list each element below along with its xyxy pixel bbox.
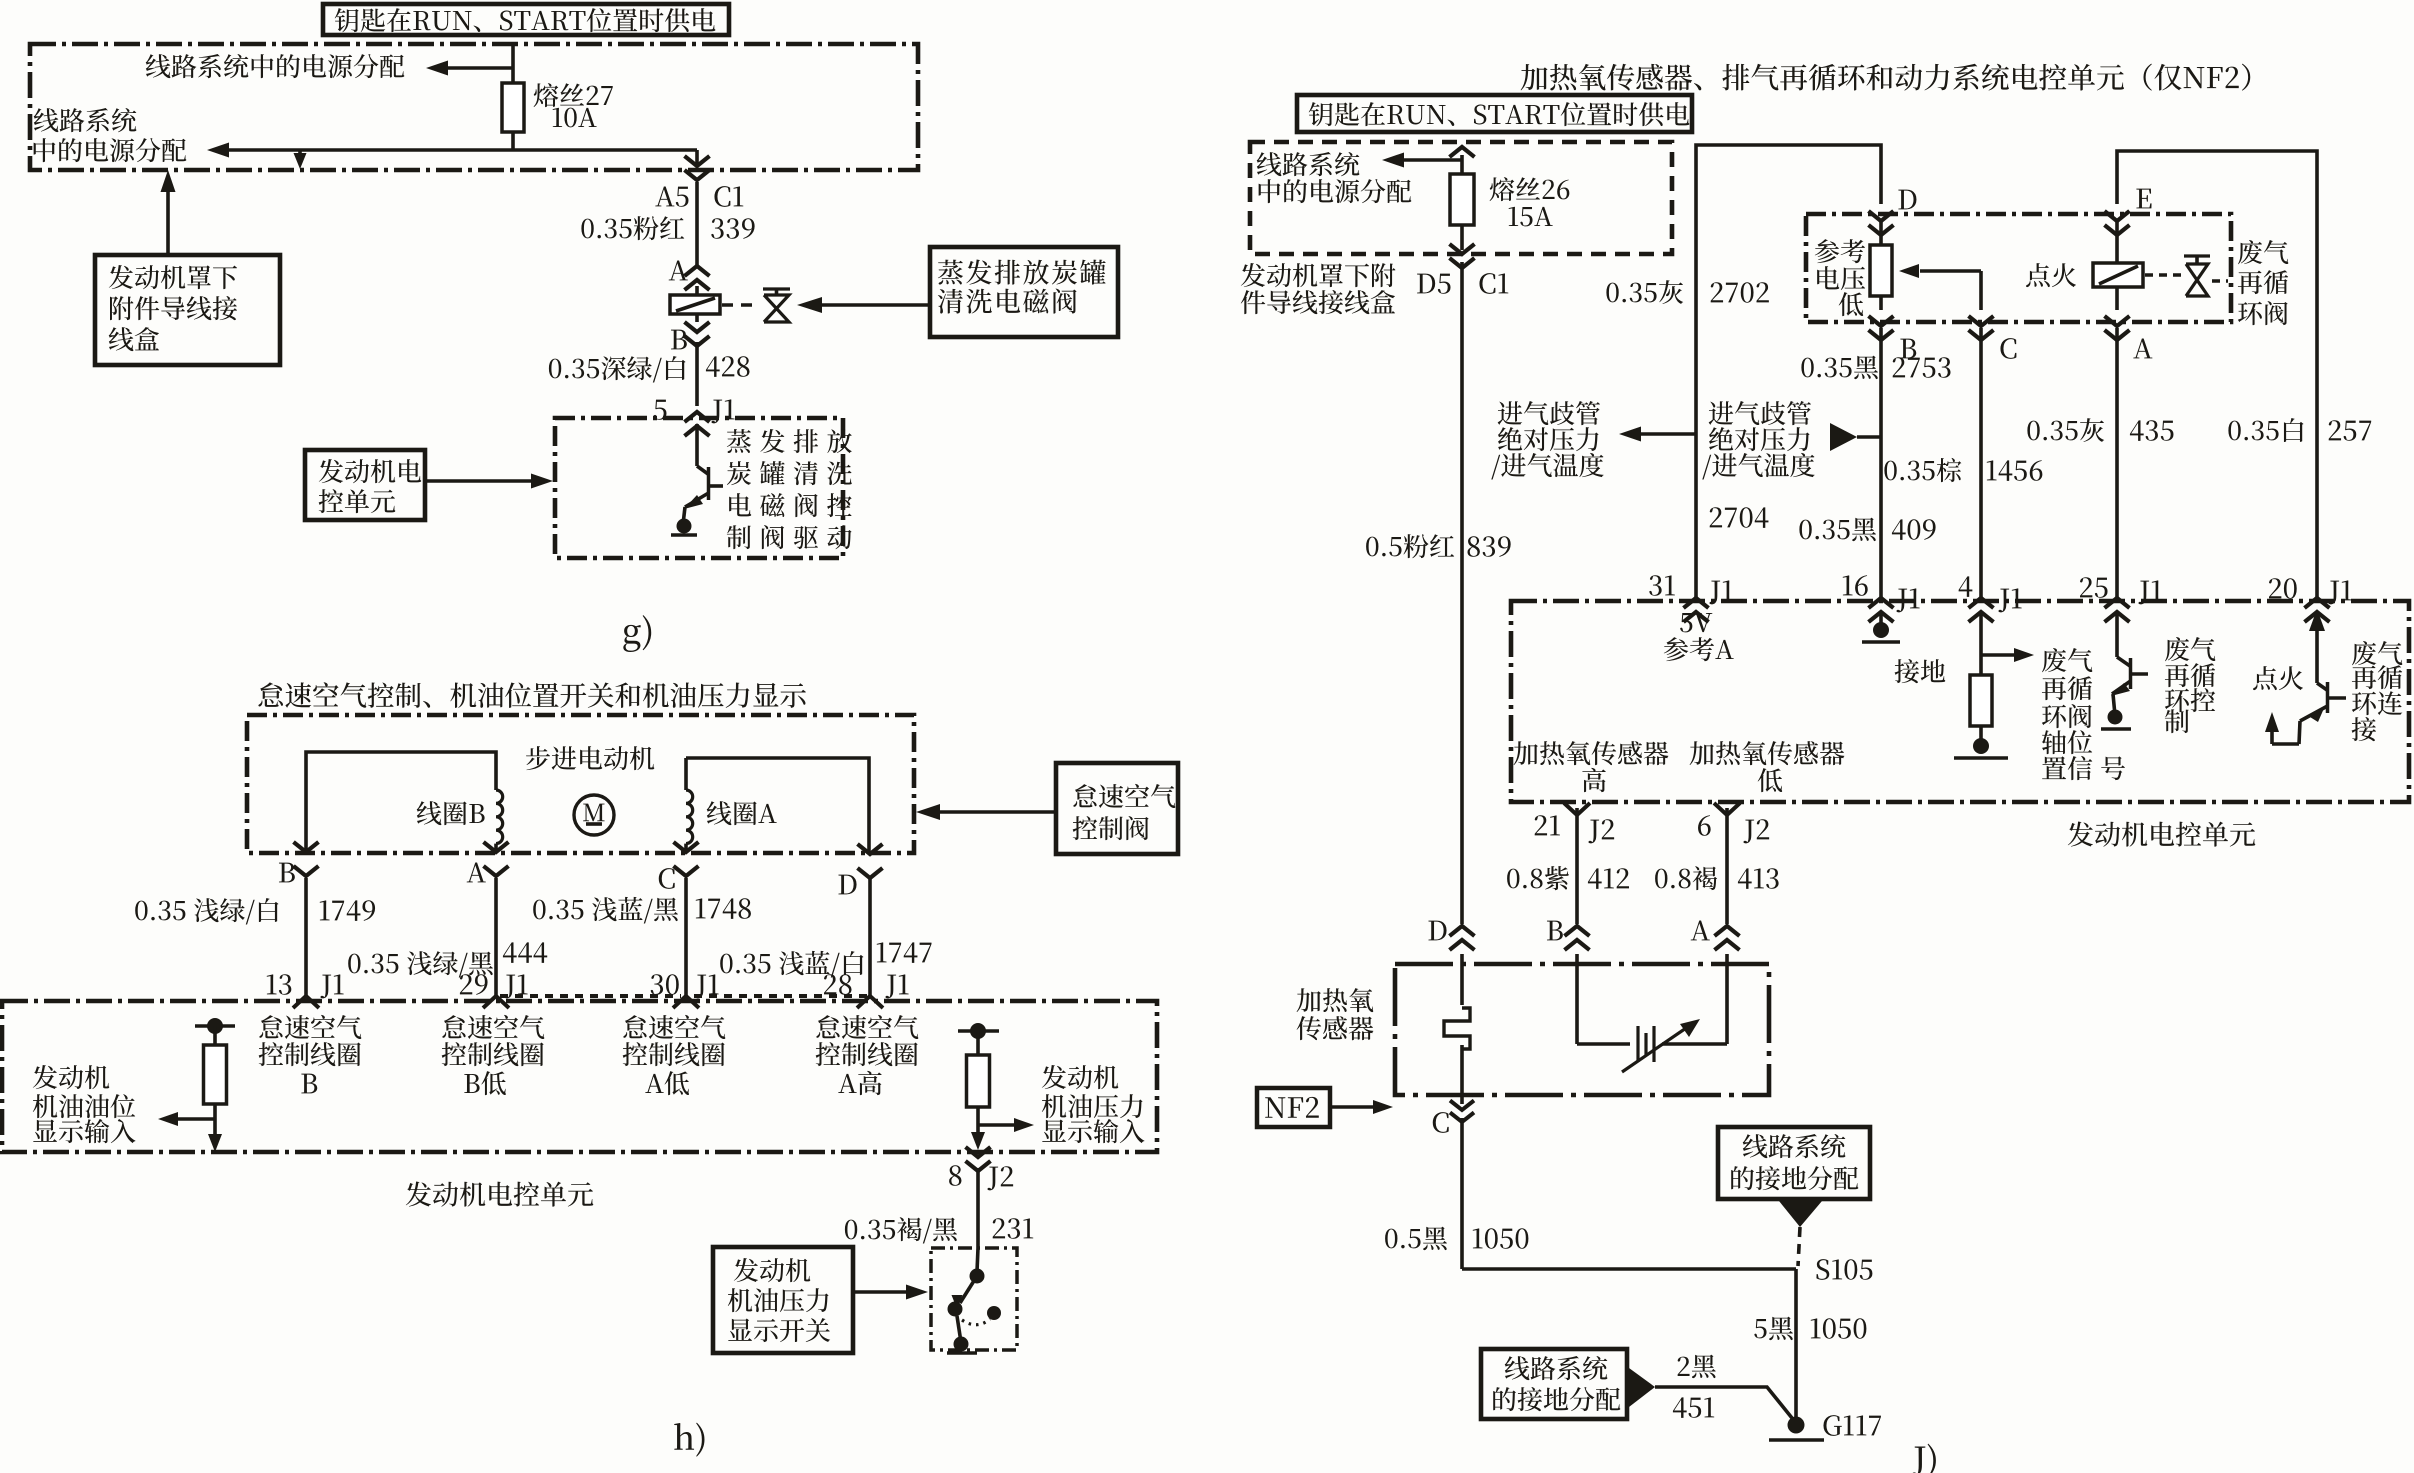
arrow down at box bottom + connector D5/C1 (1450, 244, 1475, 254)
section J title (1521, 64, 2251, 91)
pin label C1 (714, 186, 743, 207)
5V ref loop wire 2702/2704 (1696, 145, 1881, 598)
wire label 0.35 浅绿/白 1749 (135, 898, 278, 924)
pin 8 J2 (966, 1147, 991, 1157)
pin label D5 (1417, 274, 1450, 294)
node: power distribution dash-dot box (g) (30, 44, 918, 170)
box 发动机电控单元 (g) (305, 450, 425, 520)
ECU dash-dot box (J) (1511, 601, 2409, 802)
wire label 0.5粉红 839 (1366, 534, 1454, 558)
junction box arrow up from 发动机罩下附件导线接线盒 (166, 190, 170, 255)
label 废气再循环连接 (2352, 641, 2402, 665)
net label 线路系统中的电源分配 (J) (1257, 152, 1360, 176)
wire number 339 (711, 218, 754, 239)
caption g) (623, 615, 651, 652)
label 怠速空气控制线圈B (259, 1015, 361, 1039)
connector B (EGR) (1869, 316, 1894, 326)
wire label 0.35灰 2702 (1606, 280, 1683, 304)
wire label 0.35黑 2753 (1801, 356, 1878, 380)
connector E (2105, 211, 2130, 221)
ECU dash-dot box (g) (555, 418, 843, 558)
connector A (O2 sensor) (1715, 926, 1740, 936)
fuse F27 wire (511, 44, 515, 150)
dashed link to EGR pintle valve (2145, 273, 2181, 277)
section h title 怠速空气控制、机油位置开关和机油压力显示 (258, 682, 805, 708)
wire label 0.35灰 435 (2027, 418, 2104, 442)
label 蒸发排放炭罐清洗电磁阀控制阀驱动 (727, 429, 852, 453)
ground wire to S105 (1462, 1267, 1796, 1271)
wire label 0.8褐 413 (1655, 866, 1717, 890)
label 废气再循环控制 (2165, 637, 2215, 661)
arrow ECU box to dash-dot (425, 479, 545, 483)
tap arrow down to junction box (298, 150, 302, 160)
fuse 27 10A (502, 83, 524, 132)
dashed connector-bus line (500, 994, 681, 998)
label 加热氧传感器 (sensor) (1297, 988, 1374, 1012)
wire label 0.35棕 1456 (1884, 458, 1961, 482)
label 进气歧管绝对压力/进气温度 (left) (1498, 401, 1600, 425)
node S105 (1816, 1259, 1872, 1280)
pin 4 J1 + EGR position signal (1969, 598, 1994, 608)
oil pressure switch dash-dot box (931, 1248, 1017, 1350)
coil B loop wire (306, 752, 496, 852)
ECU caption 发动机电控单元 (h) (406, 1182, 593, 1207)
caption h) (674, 1423, 704, 1457)
section g: power feed label box (323, 4, 729, 35)
oil level branch arrow (175, 1117, 215, 1121)
power feed label box (J) (1297, 95, 1692, 132)
stepper motor symbol M (574, 795, 614, 835)
oil pressure branch arrow (978, 1123, 1014, 1127)
wire label 0.35 浅蓝/白 1747 (720, 951, 863, 978)
label 步进电动机 (526, 746, 654, 770)
driver transistor (purge solenoid control) (695, 424, 699, 466)
oil pressure sense resistor (958, 1029, 999, 1033)
net label 线路系统中的电源分配 (left) (34, 108, 137, 132)
wire E + 257 top link (2117, 151, 2317, 598)
net label 线路系统中的电源分配 (top) (146, 54, 405, 78)
connector D (h) (858, 844, 883, 854)
pin 31 J1 (1684, 598, 1709, 608)
label 点火 (EGR) (2026, 263, 2076, 287)
label 怠速空气控制线圈B低 (442, 1015, 544, 1039)
pin 20 J1 + EGR connect transistor (2305, 598, 2330, 608)
dashed link to valve (722, 303, 757, 307)
box 蒸发排放炭罐清洗电磁阀 (930, 247, 1118, 337)
wire label 0.35 浅绿/黑 444 (348, 951, 493, 977)
O2 heater element (1460, 954, 1464, 1005)
O2 sensor dash-dot box (1395, 964, 1769, 1095)
coil A inductor (684, 758, 688, 790)
pin 6 J2 (1714, 803, 1740, 815)
wire label 0.35 浅蓝/黑 1748 (533, 897, 678, 924)
purge solenoid coil (relay box with slash) (670, 295, 720, 314)
triangle + wire 451 to G117 (1629, 1368, 1655, 1407)
connector B (h) (294, 842, 319, 852)
label 线圈B (417, 801, 485, 825)
wire label 2黑 451 (1678, 1355, 1716, 1379)
pin 29 J1 (460, 974, 488, 995)
ground G117 (1788, 1417, 1805, 1434)
coil B inductor (496, 790, 503, 844)
connector C (O2 sensor) (1450, 1101, 1474, 1111)
arrow into resistor (1920, 269, 1981, 273)
arrow to power distribution (447, 66, 513, 70)
connector at box top (1450, 147, 1475, 157)
pin label C1 (1479, 273, 1508, 294)
wire label 0.35黑 409 (1799, 518, 1876, 542)
box NF2 (1257, 1088, 1330, 1127)
box 发动机罩下附件导线接线盒 (95, 255, 280, 365)
pin 21 J2 (1564, 803, 1590, 815)
connector B (671, 330, 687, 350)
label 废气再循环阀轴位置信号 (2042, 648, 2092, 672)
wire label 0.5黑 1050 (1385, 1227, 1447, 1251)
O2 sense element (variable emf) (1575, 954, 1579, 1044)
pin 5 / J1 (654, 400, 667, 420)
EGR pintle valve symbol (2184, 254, 2210, 257)
wire: bus to A5 (228, 148, 697, 152)
ECU dash-dot box (h) (2, 1001, 1157, 1152)
label 点火 (pin20) (2253, 666, 2303, 690)
pin 16 J1 + ground (1869, 598, 1894, 608)
label 线圈A (707, 801, 777, 825)
fuse 26 15A (1450, 174, 1474, 225)
MAP/IAT branch arrow left (1640, 432, 1696, 436)
wire label 0.35白 257 (2228, 418, 2303, 442)
box 发动机机油压力显示开关 (713, 1247, 853, 1353)
ECU caption 发动机电控单元 (J) (2068, 822, 2255, 847)
label 怠速空气控制线圈A高 (816, 1015, 918, 1039)
pin 25 J1 + EGR control transistor (2105, 598, 2130, 608)
label 加热氧传感器 低 (1690, 741, 1845, 765)
connector D (EGR) (1869, 211, 1894, 221)
oil level sense resistor (195, 1024, 235, 1028)
pin 28 J1 (824, 974, 852, 995)
EGR valve dash-dot box (1806, 214, 2231, 322)
box 线路系统的接地分配 (upper) (1718, 1127, 1870, 1199)
arrow to switch (853, 1290, 920, 1294)
IAC valve dash-dot box (h) (247, 715, 914, 853)
pin label A5 (655, 187, 688, 207)
connector A5/C1 at box border (695, 150, 699, 166)
label 进气歧管绝对压力/进气温度 (right) (1709, 401, 1811, 425)
wire label 0.8紫 412 (1507, 866, 1569, 890)
EGR solenoid coil symbol (2093, 263, 2143, 287)
wire label 5黑 1050 (1754, 1317, 1793, 1341)
coil A loop wire (686, 758, 869, 853)
wire label 0.35深绿/白 (549, 356, 686, 382)
box 线路系统的接地分配 (lower) (1481, 1349, 1627, 1419)
arrow NF2 to sensor (1330, 1105, 1385, 1109)
label 废气再循环阀 (2238, 240, 2288, 264)
label 5V 参考A (1680, 613, 1712, 632)
arrow to power distribution (J) (1403, 158, 1462, 162)
connector A (h) (484, 842, 509, 852)
EGR position sense resistor (1879, 221, 1883, 245)
arrow from 蒸发排放炭罐清洗电磁阀 box (820, 303, 930, 307)
connector A (EGR) (2105, 316, 2130, 326)
caption J) (1912, 1444, 1936, 1473)
oil pressure switch contacts (977, 1248, 978, 1272)
valve symbol (canister purge) (763, 287, 790, 290)
pin 30 J1 (651, 974, 679, 995)
label 加热氧传感器 高 (1514, 741, 1669, 765)
pin 13 J1 (267, 974, 292, 995)
connector D (O2 sensor) (1450, 926, 1475, 936)
box 怠速空气控制阀 (1056, 763, 1178, 854)
MAP signal triangle into wire 2753 (1830, 423, 1857, 451)
triangle + dashed wire to S105 (1779, 1201, 1822, 1227)
wire label 0.35粉红 (581, 216, 684, 240)
connector C (h) (674, 842, 699, 852)
label 怠速空气控制线圈A低 (623, 1015, 725, 1039)
pin chevrons at ECU border (h) (293, 996, 319, 1008)
connector C (EGR) (1969, 316, 1994, 326)
connector B (O2 sensor) (1565, 926, 1590, 936)
wire label 2704 (1710, 507, 1769, 528)
wire number 428 (706, 356, 750, 377)
label 参考电压低 (1815, 239, 1865, 263)
box label 发动机罩下附件导线接线盒 (J) (1241, 263, 1396, 287)
connector A (669, 261, 688, 281)
wire label 0.35褐/黑 231 (845, 1217, 957, 1243)
arrow from IAC valve box (940, 810, 1056, 814)
label 发动机机油压力显示输入 (1042, 1065, 1119, 1089)
power distribution dashed box (J) (1250, 142, 1672, 254)
label 发动机机油油位显示输入 (33, 1065, 110, 1089)
